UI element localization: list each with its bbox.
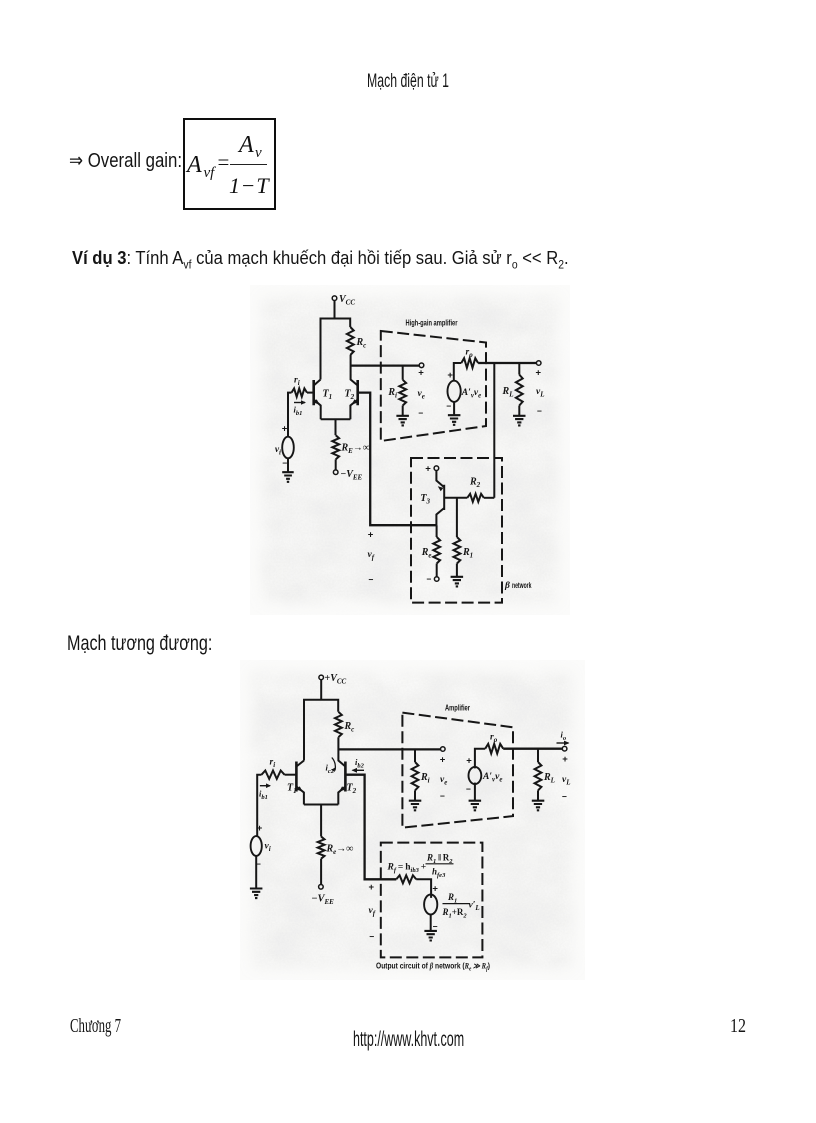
svg-text:−: − (466, 784, 471, 794)
svg-text:+: + (282, 424, 288, 435)
footer (70, 1016, 121, 1036)
resistor ro (461, 348, 478, 368)
current ib1 arrow (294, 400, 307, 417)
label Rf formula (387, 853, 454, 880)
T2 base wire feedback 2 (345, 775, 396, 880)
resistor ro 2 (485, 733, 503, 754)
svg-text:RE​→∞: RE​→∞ (341, 443, 370, 456)
T3 base wire (444, 497, 467, 499)
wire source to ro 2 (475, 749, 485, 769)
circuit 2: equivalent circuit schematic (240, 660, 585, 980)
svg-text:+: + (562, 754, 568, 765)
node vL terminal (536, 361, 545, 416)
terminal + of beta network (425, 464, 438, 475)
svg-text:−: − (446, 401, 451, 411)
label beta network (504, 581, 532, 591)
T1 base wire 2 (285, 774, 297, 776)
overall gain line (69, 151, 182, 171)
wire pair to Re 2 (320, 805, 322, 837)
ground under source (448, 402, 461, 425)
wire T2 base feedback (358, 393, 437, 526)
controlled source Av ve (446, 370, 481, 411)
output circuit dashed box (381, 843, 483, 958)
svg-text:−: − (282, 458, 287, 468)
beta network dashed box (411, 458, 502, 603)
vi du 3 line (72, 249, 569, 272)
current ib1 arrow 2 (259, 783, 271, 801)
svg-text:−: − (440, 791, 445, 801)
wire collector to ve node 2 (338, 748, 440, 750)
svg-text:−: − (369, 575, 374, 585)
resistor RE (332, 435, 370, 459)
mach tuong duong (67, 633, 212, 655)
node ve terminal (418, 363, 425, 418)
wire collector output to ve node (351, 364, 420, 366)
svg-text:+: + (466, 756, 472, 767)
wire pair to RE (335, 419, 337, 435)
node ve terminal 2 (440, 747, 448, 801)
svg-text:−: − (562, 792, 567, 802)
resistor ri 2 (262, 758, 285, 779)
resistor Rc (347, 327, 366, 355)
terminal - of beta network (427, 564, 439, 585)
terminal -VEE 2 (312, 859, 335, 906)
svg-text:+: + (440, 755, 446, 766)
wire Rf to source (416, 879, 431, 898)
controlled source Av ve 2 (466, 756, 502, 795)
wire output node down to beta network (493, 363, 495, 498)
current ib2 arrow (352, 757, 365, 773)
svg-text:β: β (504, 581, 510, 591)
ground under Ri (396, 406, 409, 426)
power +VCC terminal (319, 673, 347, 686)
svg-text:−: − (418, 408, 423, 418)
transistor pair T1 T2 body 2 (287, 700, 357, 805)
wire ri to vi (288, 393, 292, 437)
wire ro to vL terminal 2 (503, 748, 562, 750)
circuit 1: feedback amplifier schematic (250, 285, 570, 615)
source vi (275, 424, 294, 469)
svg-text:High-gain amplifier: High-gain amplifier (406, 319, 458, 328)
wire VCC to pair 2 (320, 680, 322, 700)
wire VCC to pair (334, 301, 336, 319)
svg-text:network: network (512, 581, 532, 590)
svg-text:−: − (537, 406, 542, 416)
wire ro to vL terminal (478, 362, 536, 364)
header (367, 72, 449, 92)
current ic2 label (326, 758, 336, 776)
svg-text:+: + (257, 823, 263, 834)
label vf plus minus (368, 530, 375, 585)
T1 base wire (307, 392, 314, 394)
resistor RL 2 (535, 749, 555, 791)
resistor R1 (454, 498, 474, 564)
wire source to ro (454, 363, 462, 381)
svg-text:+: + (447, 370, 453, 381)
ground under Ri 2 (409, 790, 422, 810)
caption output circuit of beta network (376, 962, 490, 973)
svg-text:−: − (427, 574, 432, 584)
resistor Re 2 (318, 837, 354, 859)
wire R2 to output node (484, 497, 495, 499)
label high-gain amplifier (406, 319, 458, 328)
svg-text:+: + (369, 882, 375, 893)
ground under vi 2 (250, 856, 263, 898)
wire ri to vi 2 (257, 775, 261, 837)
label vf plus minus 2 (369, 882, 376, 942)
label amplifier (445, 704, 470, 713)
resistor Rc 2 (335, 712, 354, 737)
resistor Rf (396, 875, 416, 883)
svg-text:+: + (418, 368, 424, 379)
svg-text:+: + (432, 884, 438, 895)
label R1 over R1+R2 vL prime (442, 892, 480, 920)
svg-text:+: + (425, 464, 431, 475)
svg-text:Re​→∞: Re​→∞ (326, 844, 354, 857)
ground under source 2 (469, 783, 482, 811)
svg-text:Rf​ = hib3​ +: Rf​ = hib3​ + (387, 863, 427, 875)
ground under vi (282, 458, 294, 482)
terminal -VEE (333, 459, 362, 481)
resistor Re (421, 525, 440, 563)
resistor Ri 2 (412, 749, 430, 790)
svg-text:−: − (369, 932, 374, 942)
resistor RL (502, 363, 523, 406)
ground under RL 2 (532, 790, 545, 810)
transistor T3 (420, 471, 444, 526)
source vL prime (424, 884, 438, 932)
resistor ri (292, 376, 308, 397)
transistor pair T1 T2 body (314, 319, 358, 420)
ground under R1 (451, 564, 464, 587)
svg-text:+: + (536, 368, 542, 379)
ground under RL (513, 406, 526, 426)
svg-text:Amplifier: Amplifier (445, 704, 470, 713)
svg-text:+: + (368, 530, 374, 541)
power VCC terminal (332, 294, 355, 307)
formula box Avf = Av/(1-T) (183, 118, 276, 210)
resistor R2 (467, 477, 484, 502)
amplifier trapezoid box 2 (402, 713, 513, 828)
scan background tint 2 (240, 660, 585, 980)
ground under vL prime source (424, 915, 437, 941)
amplifier trapezoid box (381, 331, 486, 441)
node vL terminal 2 (562, 746, 571, 801)
source vi 2 (251, 823, 271, 869)
current io arrow (557, 730, 570, 746)
resistor Ri (387, 366, 406, 406)
